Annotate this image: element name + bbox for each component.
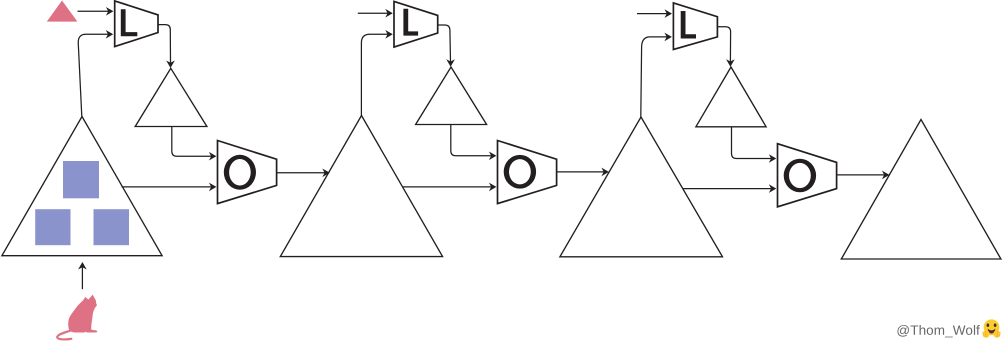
cat body silhouette xyxy=(68,295,97,333)
updated model triangle M2 xyxy=(416,67,487,125)
wire O3 to T4 xyxy=(837,174,885,176)
weight square bottom-left xyxy=(35,209,70,245)
model triangle T1 xyxy=(2,117,162,256)
wire model T1 apex to L1 xyxy=(78,34,108,116)
model triangle T4 xyxy=(841,120,1001,260)
trapezoid L2 xyxy=(394,1,438,47)
wire M3 to O3 xyxy=(732,127,772,159)
wire L1 to updated model M1 xyxy=(158,25,171,64)
label L1 xyxy=(121,9,138,36)
svg-text:@Thom_Wolf: @Thom_Wolf xyxy=(896,323,980,338)
label L3 xyxy=(681,11,696,39)
label O3 xyxy=(784,159,816,193)
cat tail xyxy=(57,331,71,340)
wire O2 to T3 xyxy=(557,171,604,173)
trapezoid O1 xyxy=(218,141,277,204)
arrow input to L3 xyxy=(637,13,667,15)
arrow input to L1 xyxy=(78,10,109,12)
weight square bottom-right xyxy=(94,209,130,245)
weight square top xyxy=(63,161,99,198)
model triangle T2 xyxy=(280,116,442,257)
wire O1 to T2 xyxy=(277,172,325,174)
updated model triangle M1 xyxy=(135,68,207,126)
wire model T3 apex to L3 xyxy=(641,37,667,117)
wire T1 to O1 xyxy=(122,186,212,188)
trapezoid L1 xyxy=(115,1,158,47)
wire T2 to O2 xyxy=(403,186,492,188)
model triangle T3 xyxy=(560,117,723,257)
wire L3 to updated model M3 xyxy=(717,27,730,62)
trapezoid O3 xyxy=(778,144,837,207)
label L2 xyxy=(403,9,418,36)
updated model triangle M3 xyxy=(696,67,766,127)
hugging face emoji xyxy=(983,319,1000,337)
wire model T2 apex to L2 xyxy=(361,34,388,115)
wire M1 to O1 xyxy=(172,127,212,157)
wire L2 to updated model M2 xyxy=(438,25,451,62)
label O2 xyxy=(504,155,536,189)
wire T3 to O3 xyxy=(683,188,772,190)
arrow cat to T1 xyxy=(81,267,83,289)
input token pink triangle xyxy=(47,1,78,22)
trapezoid L3 xyxy=(673,3,717,50)
label O1 xyxy=(224,155,256,190)
trapezoid O2 xyxy=(498,141,557,204)
wire M2 to O2 xyxy=(451,125,492,156)
arrow input to L2 xyxy=(358,12,388,14)
